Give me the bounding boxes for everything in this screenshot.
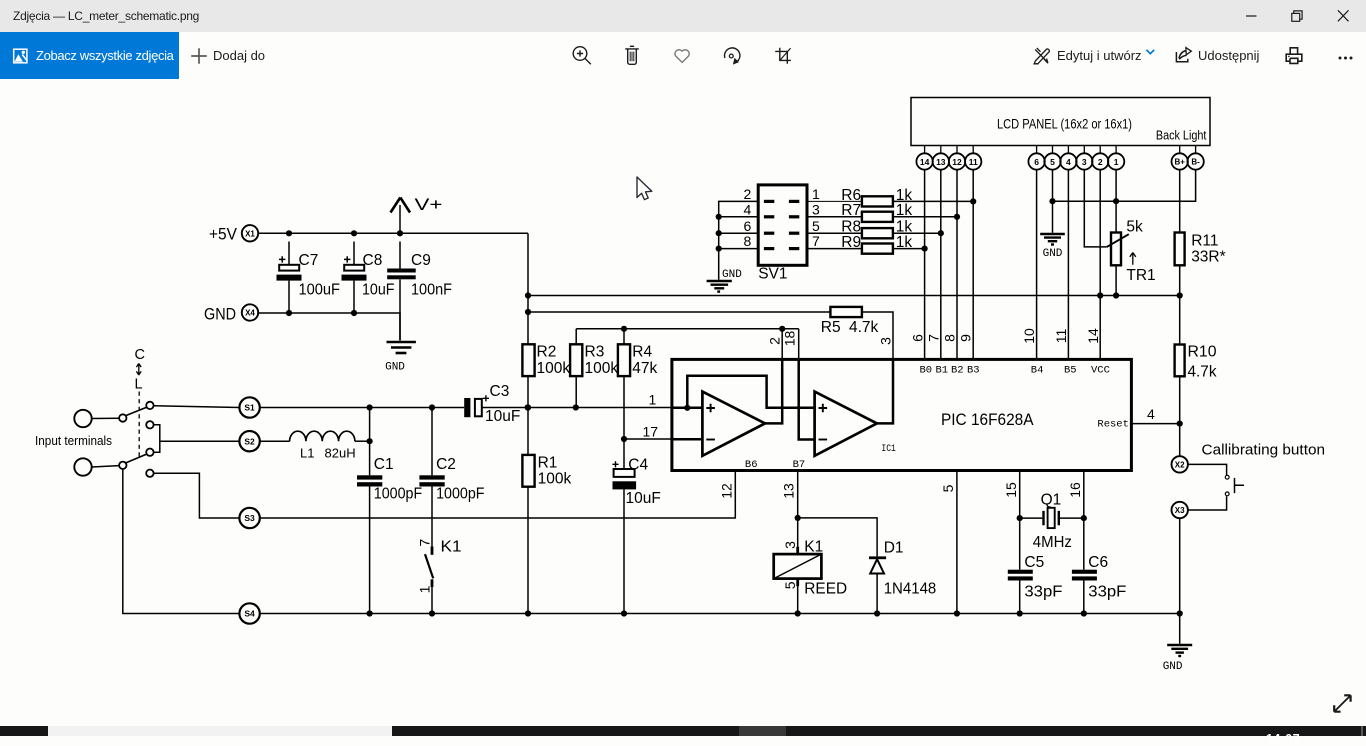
op-amp U1A minus — [706, 439, 715, 441]
svg-text:R11: R11 — [1191, 233, 1218, 250]
op-amp U1B minus — [819, 439, 828, 441]
svg-text:6: 6 — [1034, 157, 1039, 167]
svg-text:2: 2 — [744, 186, 752, 202]
svg-text:+5V: +5V — [209, 225, 238, 244]
junction dot — [716, 230, 722, 236]
svg-text:10uF: 10uF — [485, 408, 520, 425]
svg-text:12: 12 — [952, 157, 962, 167]
wire pin15 down — [1019, 471, 1021, 614]
svg-text:B-: B- — [1191, 158, 1200, 167]
switch lever 2 — [126, 454, 147, 463]
svg-text:GND: GND — [1043, 248, 1063, 260]
wire R9 to LCD14 line — [893, 248, 925, 250]
resistor R6 — [841, 187, 912, 207]
svg-text:1: 1 — [812, 186, 820, 202]
resistor R10 — [1175, 296, 1217, 456]
resistor R3 — [570, 329, 618, 408]
svg-text:K1: K1 — [804, 539, 823, 556]
svg-text:100k: 100k — [585, 360, 619, 377]
share icon — [1176, 48, 1191, 62]
wire pin17 — [624, 438, 672, 440]
svg-text:C1: C1 — [374, 456, 394, 473]
SV1 pin pads — [764, 200, 799, 250]
inductor L1 — [290, 431, 370, 460]
svg-text:1000pF: 1000pF — [436, 486, 484, 503]
node V+ — [391, 196, 443, 233]
svg-text:7: 7 — [416, 539, 432, 547]
svg-text:S3: S3 — [244, 513, 255, 523]
wire GND row — [258, 313, 400, 341]
svg-text:SV1: SV1 — [758, 266, 787, 283]
capacitor C7 — [277, 242, 341, 314]
svg-text:B4: B4 — [1031, 364, 1044, 376]
resistor R9 — [841, 234, 912, 254]
IC1 internal feedback wire — [687, 376, 814, 408]
junction dot — [367, 404, 373, 410]
ground symbol (LCD) — [1040, 234, 1065, 260]
resistor R8 — [841, 219, 912, 239]
svg-text:2: 2 — [1098, 157, 1103, 167]
wire R7 to LCD12 line — [893, 216, 957, 218]
op-amp U1B plus — [819, 404, 828, 413]
junction dot — [954, 610, 960, 616]
capacitor C4 — [612, 439, 660, 614]
wire R3/R4 top to pins 2,18 — [576, 328, 799, 330]
IC1 internal wire U1B output to pin3 — [877, 359, 893, 423]
switch contact 1 — [146, 402, 153, 409]
svg-text:C8: C8 — [363, 252, 383, 269]
junction dot — [1177, 292, 1183, 298]
svg-text:33pF: 33pF — [1088, 584, 1126, 601]
LCD panel box — [911, 98, 1210, 146]
svg-text:13: 13 — [936, 157, 946, 167]
svg-text:7: 7 — [812, 233, 820, 249]
svg-text:R5: R5 — [821, 319, 841, 336]
LCD pin 2 — [1092, 146, 1108, 170]
svg-text:B6: B6 — [745, 459, 758, 471]
svg-text:C: C — [135, 347, 145, 363]
wire SV1 left pins to gnd — [719, 201, 759, 279]
svg-text:B5: B5 — [1064, 364, 1077, 376]
svg-text:82uH: 82uH — [325, 446, 356, 461]
svg-text:33R*: 33R* — [1191, 248, 1225, 265]
svg-text:100k: 100k — [537, 360, 571, 377]
wire pole2 down to S4 rail — [123, 469, 240, 614]
svg-text:6: 6 — [910, 334, 926, 342]
resistor R11 — [1175, 170, 1226, 296]
junction dots on gnd rail — [367, 610, 373, 616]
svg-text:4.7k: 4.7k — [1188, 364, 1217, 381]
junction dot — [970, 198, 976, 204]
junction dot — [1177, 610, 1183, 616]
svg-text:TR1: TR1 — [1126, 267, 1155, 284]
svg-text:X3: X3 — [1175, 506, 1185, 515]
junction dot — [525, 404, 531, 410]
svg-text:11: 11 — [969, 157, 978, 167]
printer icon — [1286, 48, 1302, 64]
svg-text:3: 3 — [812, 201, 820, 217]
svg-text:C5: C5 — [1024, 554, 1044, 571]
LCD pin 5 — [1044, 146, 1060, 170]
svg-text:5: 5 — [782, 581, 798, 589]
junction dot — [429, 404, 435, 410]
wire LCD5 to gnd — [1052, 170, 1054, 233]
capacitor C8 — [342, 242, 395, 314]
title bar — [0, 0, 1366, 32]
wire +5V horizontal rail — [528, 295, 1180, 297]
pushbutton contact bottom — [1225, 492, 1229, 496]
edit pencil icon — [1034, 48, 1050, 64]
potentiometer TR1 — [1107, 219, 1156, 296]
plus icon — [191, 48, 207, 64]
junction dot — [1081, 515, 1087, 521]
pushbutton actuator — [1235, 478, 1245, 493]
wire +5V rail top — [258, 232, 528, 234]
svg-text:S4: S4 — [244, 609, 255, 619]
svg-text:B0: B0 — [920, 364, 933, 376]
wire SV1 pin1 to R6 — [807, 200, 862, 202]
wire pin4 Reset — [1131, 423, 1179, 425]
wire S3 to pin12 — [260, 471, 736, 519]
svg-text:33pF: 33pF — [1024, 584, 1062, 601]
junction dot — [525, 404, 531, 410]
junction dot — [1097, 292, 1103, 298]
wire R6 to LCD11 line — [893, 200, 973, 202]
svg-text:C9: C9 — [411, 252, 431, 269]
svg-text:Callibrating button: Callibrating button — [1202, 443, 1326, 459]
svg-text:C3: C3 — [490, 383, 510, 400]
LCD pin 6 — [1028, 146, 1044, 170]
svg-text:4.7k: 4.7k — [849, 319, 879, 336]
svg-text:3: 3 — [1082, 157, 1087, 167]
LCD pin 4 — [1060, 146, 1076, 170]
svg-text:B1: B1 — [936, 364, 949, 376]
trash icon — [625, 46, 639, 64]
wire pin16 down — [1083, 471, 1085, 614]
svg-text:16: 16 — [1067, 482, 1083, 498]
wire +5V drop to R2 — [527, 233, 529, 344]
junction dot — [954, 214, 960, 220]
svg-text:K1: K1 — [441, 539, 462, 556]
svg-text:C2: C2 — [436, 456, 456, 473]
svg-text:R2: R2 — [537, 344, 557, 361]
wire terminal1 to pole1 — [92, 417, 119, 419]
LCD pin B+ — [1172, 146, 1188, 170]
terminal X4 — [242, 304, 258, 320]
svg-text:C7: C7 — [299, 252, 319, 269]
resistor R1 — [522, 454, 571, 487]
wire S2 to L1 — [260, 440, 290, 442]
junction dot — [795, 610, 801, 616]
terminal X1 — [242, 225, 258, 241]
junction dot — [716, 214, 722, 220]
wire contact1 to S1 — [154, 406, 240, 408]
svg-text:S2: S2 — [244, 436, 255, 446]
svg-text:17: 17 — [643, 424, 659, 440]
svg-text:4MHz: 4MHz — [1033, 534, 1072, 551]
svg-text:LCD PANEL (16x2 or 16x1): LCD PANEL (16x2 or 16x1) — [997, 116, 1132, 132]
wire SV1 pin3 to R7 — [807, 216, 862, 218]
wire terminal2 to pole2 — [92, 466, 119, 467]
wire pin5 to rail — [956, 471, 958, 614]
svg-text:B7: B7 — [793, 459, 806, 471]
wire LCD11 down to PIC B3 — [972, 170, 974, 360]
junction dot — [525, 292, 531, 298]
svg-text:5: 5 — [1050, 157, 1055, 167]
junction dot — [874, 610, 880, 616]
terminal X2 — [1172, 456, 1188, 472]
switch contact 2 — [146, 421, 153, 428]
svg-text:L1: L1 — [300, 446, 314, 461]
capacitor C6 — [1072, 554, 1127, 601]
wire pin13 to relay — [797, 471, 799, 555]
svg-text:5: 5 — [812, 218, 820, 234]
svg-text:100uF: 100uF — [299, 282, 341, 299]
op-amp IC1 box — [672, 359, 1132, 470]
resistor R7 — [841, 202, 912, 222]
mouse cursor — [635, 176, 665, 210]
svg-text:R3: R3 — [585, 344, 605, 361]
svg-text:13: 13 — [781, 483, 797, 499]
svg-text:5: 5 — [940, 484, 956, 492]
wire LCD13 down to PIC B1 — [940, 170, 942, 360]
terminal S2 — [239, 431, 259, 451]
wire LCD4 down to PIC B5 — [1067, 170, 1069, 360]
wire U1A output to pin2 — [765, 359, 782, 423]
op-amp U1A triangle — [702, 392, 765, 456]
svg-text:1: 1 — [1114, 157, 1119, 167]
svg-text:5k: 5k — [1126, 219, 1143, 236]
resistor R5 — [821, 307, 879, 336]
svg-text:10: 10 — [1021, 328, 1037, 344]
svg-text:X2: X2 — [1175, 460, 1185, 469]
svg-text:PIC 16F628A: PIC 16F628A — [941, 410, 1034, 429]
resistor R2 — [522, 344, 570, 377]
wire LCD2 down to PIC VCC — [1099, 170, 1101, 360]
svg-text:1000pF: 1000pF — [374, 486, 422, 503]
junction dot — [1113, 198, 1119, 204]
wire R2 to R1 — [527, 376, 529, 455]
wire SV1 pin5 to R8 — [807, 232, 862, 234]
svg-text:8: 8 — [942, 334, 958, 342]
toolbar — [0, 32, 1366, 80]
svg-text:IC1: IC1 — [881, 443, 896, 455]
svg-text:14: 14 — [1085, 328, 1101, 344]
wire LCD5/LCD1/B- tie — [1053, 170, 1196, 202]
svg-text:1: 1 — [416, 585, 432, 593]
input terminal 1 — [74, 410, 91, 427]
capacitor C9 — [387, 242, 452, 341]
wire S1 row — [260, 407, 672, 409]
svg-text:1N4148: 1N4148 — [884, 581, 937, 598]
junction dot — [621, 326, 627, 332]
svg-text:R4: R4 — [632, 344, 652, 361]
junction dot — [1177, 421, 1183, 427]
wire SV1 pin7 to R9 — [807, 248, 862, 250]
svg-text:100nF: 100nF — [411, 282, 452, 299]
IC1 internal input wire pin1 — [672, 407, 703, 410]
svg-text:B2: B2 — [951, 364, 964, 376]
IC1 internal wire pin18 to U1B minus — [799, 359, 815, 439]
taskbar — [0, 726, 1366, 736]
svg-text:R1: R1 — [538, 454, 558, 471]
wire pin18 — [798, 329, 800, 360]
wire bracket to S2 — [160, 440, 240, 442]
svg-text:D1: D1 — [884, 540, 904, 557]
junction dot — [1049, 198, 1055, 204]
junction dot — [573, 404, 579, 410]
svg-text:1: 1 — [649, 392, 657, 408]
wire LCD6 down to PIC B4 — [1036, 170, 1038, 360]
ground symbol (SV1) — [707, 269, 743, 292]
relay coil K1 — [774, 539, 847, 614]
junction dot — [367, 438, 373, 444]
diode D1 — [869, 540, 936, 614]
junction dot — [525, 309, 531, 315]
relay contact K1 (switch) — [416, 539, 461, 614]
junction dot — [286, 230, 292, 236]
junction dot — [938, 230, 944, 236]
wire X2 to button — [1188, 464, 1227, 475]
LCD pin B- — [1187, 146, 1203, 170]
svg-text:47k: 47k — [632, 360, 657, 377]
svg-text:V+: V+ — [415, 196, 443, 214]
svg-text:C6: C6 — [1088, 554, 1108, 571]
ellipsis — [1339, 57, 1353, 60]
IC1 internal input wire pin17 — [672, 438, 703, 441]
svg-text:X4: X4 — [245, 309, 255, 318]
connector SV1 box — [758, 185, 807, 265]
wire X3 to button — [1188, 496, 1227, 510]
switch pole 2 — [119, 462, 126, 469]
switch lever 1 — [126, 407, 147, 415]
svg-text:L: L — [135, 377, 143, 393]
wire X3 to gnd rail — [1179, 518, 1181, 613]
wire R8 to LCD13 line — [893, 232, 941, 234]
svg-text:R7: R7 — [841, 202, 861, 219]
ground symbol (bottom right) — [1163, 645, 1193, 673]
capacitor C1 — [357, 408, 422, 614]
svg-text:R9: R9 — [841, 234, 861, 251]
junction dot — [922, 246, 928, 252]
junction dot — [286, 310, 292, 316]
LCD pin 3 — [1076, 146, 1092, 170]
junction dot — [1017, 515, 1023, 521]
svg-text:VCC: VCC — [1091, 364, 1110, 376]
svg-text:GND: GND — [204, 304, 236, 323]
svg-text:3: 3 — [878, 337, 894, 345]
dashed link line — [138, 392, 140, 459]
wire R1 to rail — [527, 487, 529, 614]
fullscreen arrow — [1326, 684, 1360, 718]
wire R5 to pin3 — [862, 312, 893, 359]
svg-text:12: 12 — [718, 483, 734, 499]
switch pole 1 — [119, 414, 126, 421]
svg-text:3: 3 — [782, 541, 798, 549]
wire gnd rail bottom — [260, 614, 1180, 644]
wire pin2 outside — [781, 329, 783, 360]
ground symbol (under C9) — [385, 342, 416, 374]
junction dot — [351, 310, 357, 316]
svg-text:15: 15 — [1003, 482, 1019, 498]
svg-text:R10: R10 — [1188, 344, 1217, 361]
capacitor C2 — [419, 408, 484, 547]
svg-text:8: 8 — [744, 233, 752, 249]
op-amp U1A plus — [706, 404, 715, 413]
svg-text:Back Light: Back Light — [1156, 129, 1207, 143]
svg-text:14: 14 — [920, 157, 930, 167]
junction dot — [397, 230, 403, 236]
chevron — [1146, 50, 1154, 54]
svg-text:2: 2 — [767, 337, 783, 345]
resistor R4 — [618, 329, 658, 439]
rotate icon — [725, 48, 740, 65]
svg-text:REED: REED — [804, 581, 847, 598]
wire bracket contacts 2-3 — [154, 425, 160, 452]
junction dot — [351, 230, 357, 236]
svg-text:B+: B+ — [1174, 158, 1185, 167]
switch contact 4 — [146, 470, 153, 477]
svg-text:4: 4 — [744, 201, 752, 217]
crystal Q1 — [1020, 491, 1084, 551]
capacitor C3 — [464, 383, 520, 425]
terminal S4 — [239, 603, 259, 623]
input terminal 2 — [74, 458, 91, 475]
wire pin13 to D1 — [798, 518, 877, 557]
crop icon — [775, 48, 791, 64]
LCD pin 12 — [949, 146, 965, 170]
svg-text:X1: X1 — [245, 229, 255, 238]
LCD pin 1 — [1108, 146, 1124, 170]
svg-text:Reset: Reset — [1097, 419, 1129, 431]
wire contact4 to S3 — [154, 473, 240, 518]
heart icon — [675, 50, 689, 63]
wire LCD1 to node — [1115, 170, 1117, 233]
svg-text:4: 4 — [1147, 406, 1155, 422]
svg-text:B3: B3 — [967, 364, 980, 376]
junction dot — [779, 326, 785, 332]
svg-text:100k: 100k — [538, 471, 572, 488]
LCD pin 11 — [965, 146, 981, 170]
svg-text:GND: GND — [385, 362, 405, 374]
junction dot — [716, 246, 722, 252]
wire LCD3 to TR1 wiper — [1084, 170, 1107, 247]
svg-text:GND: GND — [1163, 661, 1183, 673]
wire LCD12 down to PIC B2 — [956, 170, 958, 360]
svg-text:6: 6 — [744, 218, 752, 234]
svg-text:18: 18 — [782, 331, 798, 347]
LCD pin 13 — [933, 146, 949, 170]
pushbutton contact top — [1225, 475, 1229, 479]
mechanical link arrow — [136, 364, 141, 376]
capacitor C5 — [1008, 554, 1063, 601]
svg-text:7: 7 — [926, 334, 942, 342]
svg-text:Input terminals: Input terminals — [35, 433, 112, 448]
wire to R5 — [528, 311, 830, 313]
wire LCD14 down to PIC B0 — [924, 170, 926, 360]
svg-text:S1: S1 — [244, 403, 255, 413]
zoom icon — [573, 47, 591, 65]
op-amp U1B triangle — [815, 392, 877, 456]
svg-text:4: 4 — [1066, 157, 1071, 167]
svg-text:GND: GND — [722, 269, 742, 281]
junction dot — [795, 515, 801, 521]
junction dot — [621, 436, 627, 442]
svg-text:11: 11 — [1053, 329, 1069, 344]
svg-text:C4: C4 — [628, 456, 648, 473]
svg-text:9: 9 — [958, 334, 974, 342]
terminal X3 — [1172, 502, 1188, 518]
